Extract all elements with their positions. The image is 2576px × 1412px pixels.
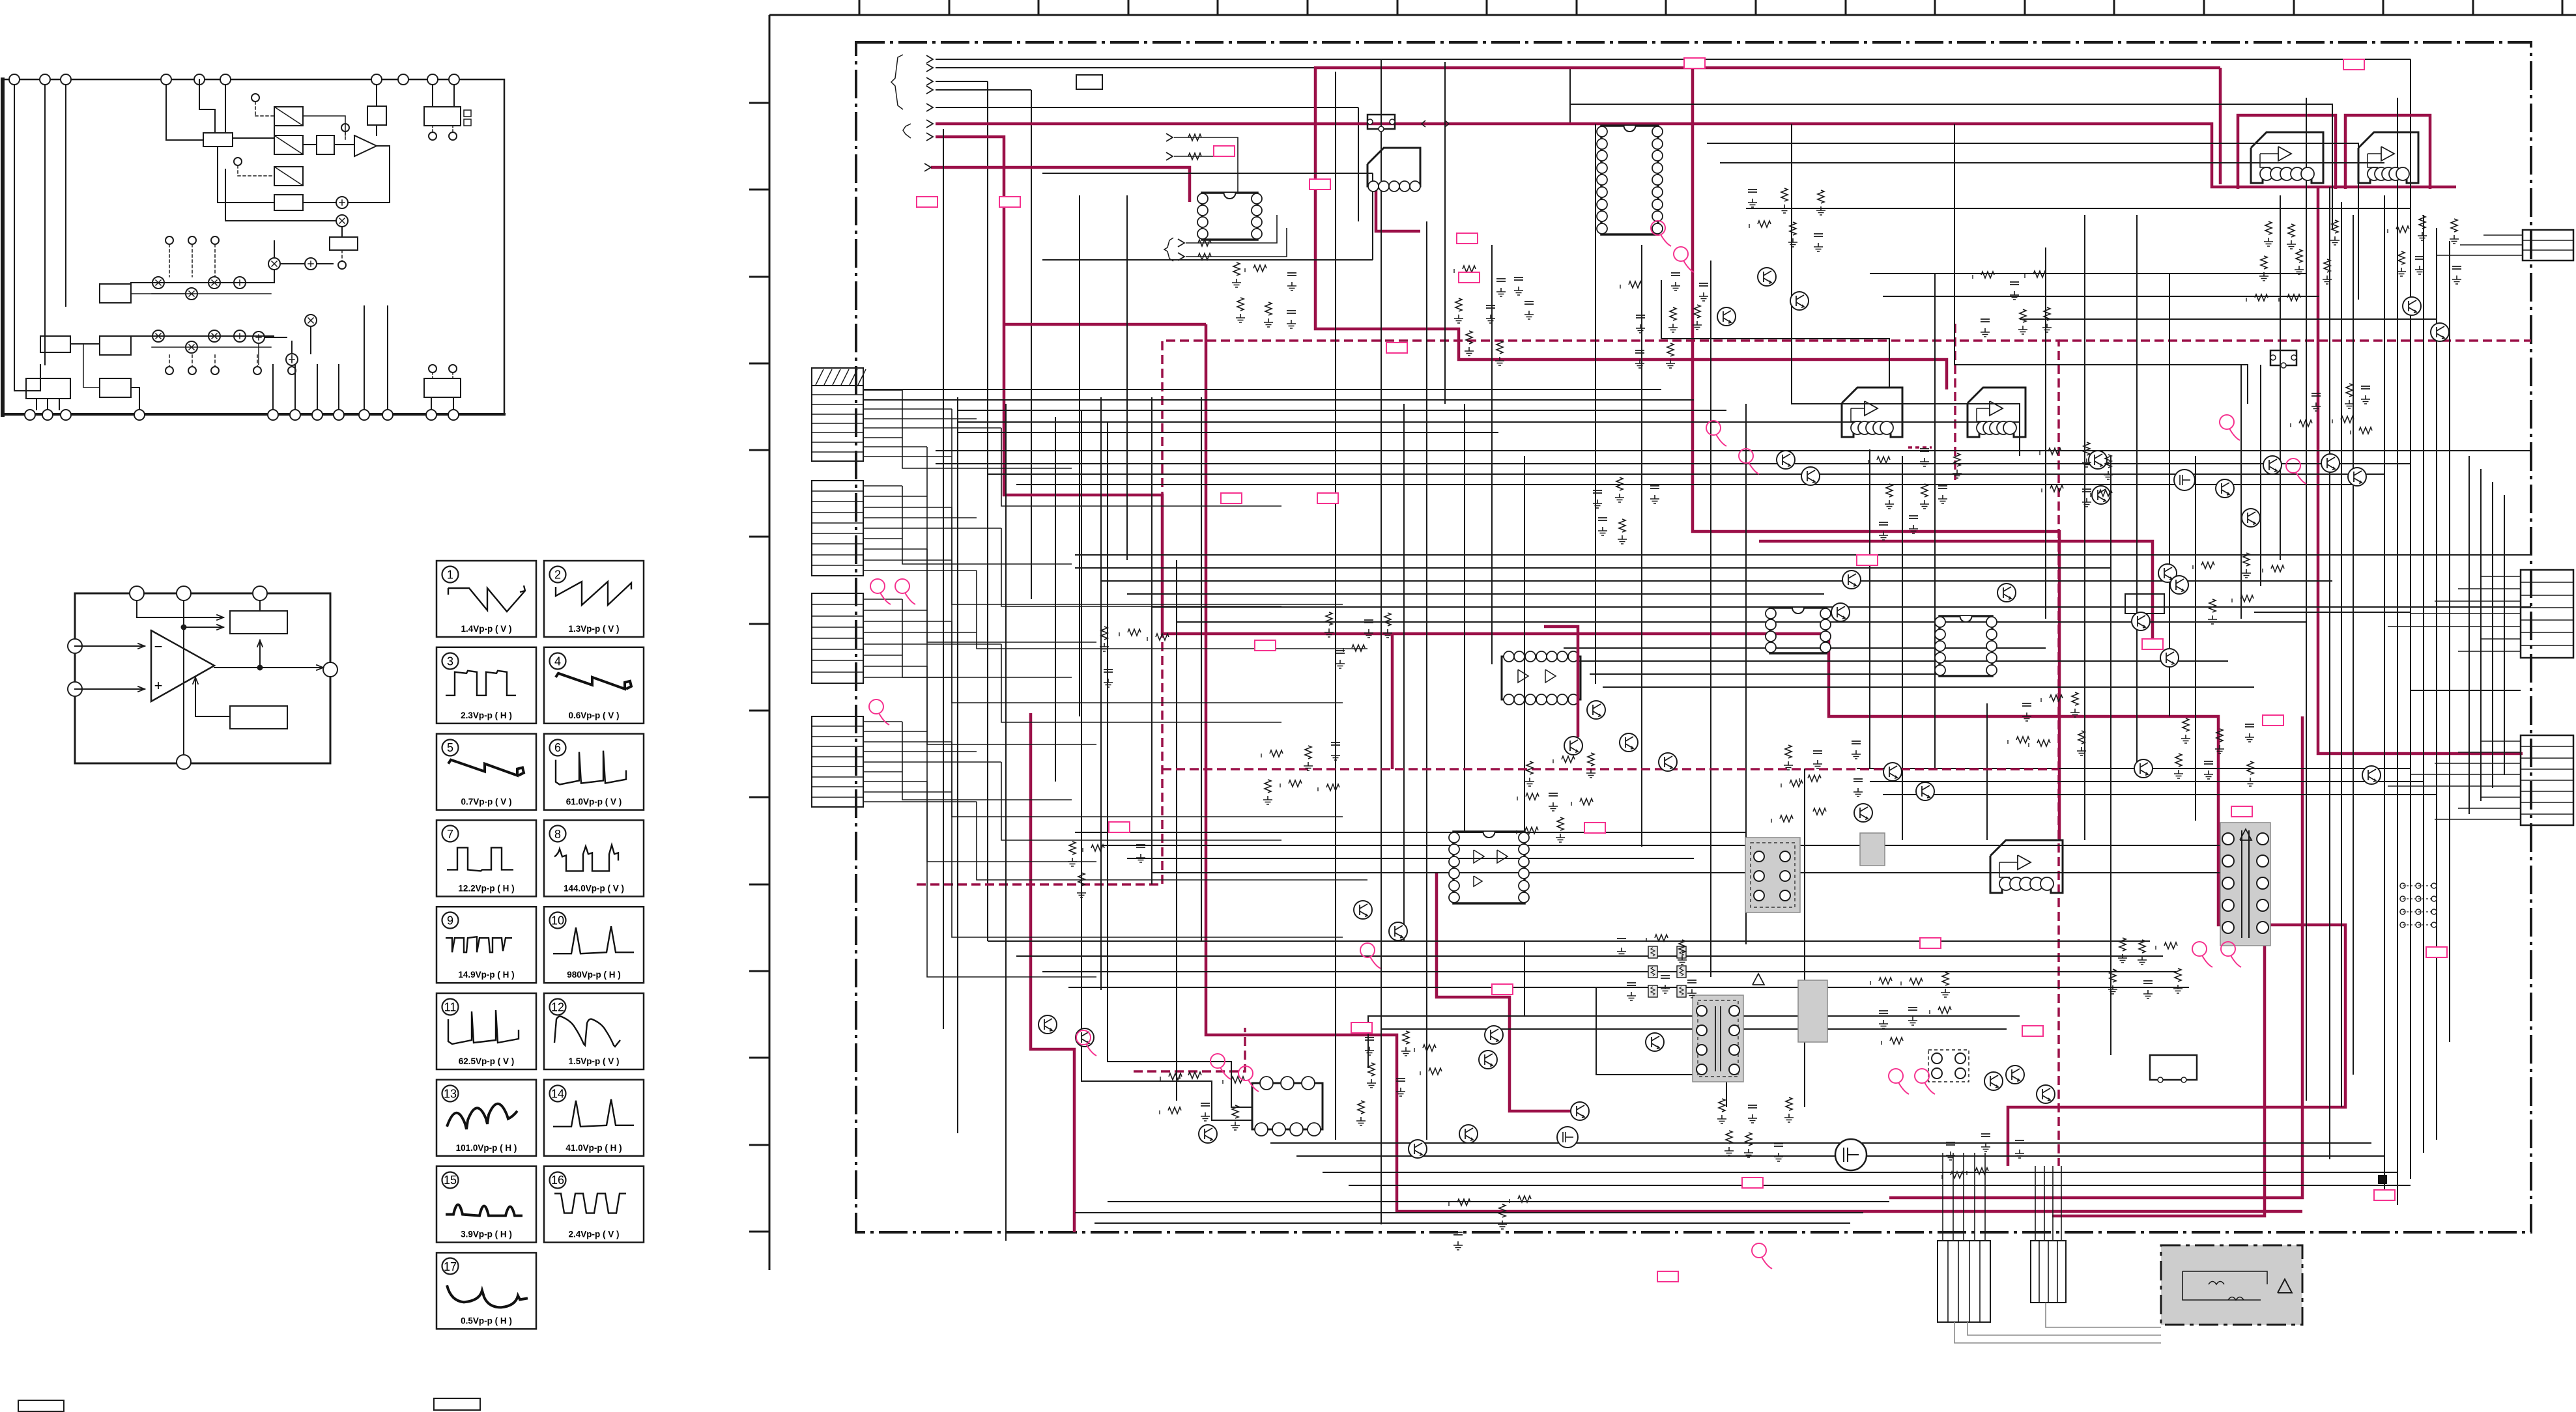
degauss / deflection yoke block (gray) [2161, 1245, 2302, 1325]
svg-text:3.9Vp-p ( H ): 3.9Vp-p ( H ) [461, 1230, 512, 1239]
input wire y=165 [926, 104, 933, 111]
IC U13 (bottom, pins top and bottom) [1252, 1083, 1323, 1129]
svg-text:1: 1 [447, 569, 453, 582]
waveform box 2 [544, 561, 644, 637]
magenta dashed drop near amp U7 [1954, 324, 1956, 480]
pink test points [870, 579, 885, 593]
limiter block 1 [274, 107, 303, 126]
column drops to bottom pins [272, 365, 274, 410]
pink reference labels [1214, 146, 1235, 156]
svg-text:12: 12 [551, 1001, 564, 1014]
svg-text:62.5Vp-p ( V ): 62.5Vp-p ( V ) [459, 1056, 515, 1066]
MOSFET Q3 (small, H-drive) [2174, 470, 2195, 490]
svg-text:14.9Vp-p ( H ): 14.9Vp-p ( H ) [458, 970, 514, 980]
bottom pin [177, 755, 191, 769]
corner page mark [2378, 1175, 2387, 1184]
waveform box 15 [436, 1166, 536, 1243]
magenta partial box right of U9 [1544, 627, 1578, 737]
svg-text:144.0Vp-p ( V ): 144.0Vp-p ( V ) [564, 883, 624, 893]
mid horizontal bus band A [864, 389, 1661, 390]
connector right-3 [2521, 735, 2573, 825]
svg-text:16: 16 [551, 1174, 564, 1187]
svg-text:2: 2 [554, 569, 561, 582]
ref box under mixer [330, 237, 358, 250]
boxed resistor grid (flyback snubbers) [1648, 946, 1657, 958]
power amp U8 (vertical out) [1990, 840, 2063, 893]
connector right-1 [2523, 230, 2573, 261]
left vertical bus bundle [943, 129, 944, 1029]
input wire y=104 [926, 64, 933, 72]
svg-text:5: 5 [447, 741, 453, 754]
band F deep bottom [1270, 1142, 2371, 1144]
svg-text:14: 14 [551, 1087, 564, 1100]
IC U10 [1453, 832, 1524, 903]
connector CN left-2 [812, 481, 863, 576]
right vertical bus bundle [2306, 98, 2307, 1101]
amp triangles inside U10 [1474, 850, 1484, 863]
gray transformer block T2 [1693, 995, 1743, 1082]
waveform box 1 [436, 561, 536, 637]
power amp U6 [1842, 388, 1902, 437]
svg-text:0.6Vp-p ( V ): 0.6Vp-p ( V ) [568, 711, 619, 720]
band D lower mid [1075, 832, 1746, 833]
RGB decode box row1 [100, 284, 131, 303]
bottom dashed circle row [165, 367, 173, 374]
bottom-left small label boxes [18, 1400, 64, 1411]
gray box G2 [1860, 833, 1885, 866]
sheet frame top rule [769, 14, 2576, 16]
MOSFET Q (big circle) [1835, 1139, 1867, 1170]
svg-text:17: 17 [444, 1260, 457, 1273]
output wire loop [377, 146, 390, 202]
warning triangle [2278, 1279, 2292, 1293]
bias box bottom [230, 706, 287, 729]
waveform box 5 [436, 734, 536, 810]
sheet frame left rule [769, 15, 771, 1270]
wires bottom connectors to degauss block [1954, 1322, 2161, 1343]
right header block [424, 107, 461, 126]
svg-text:13: 13 [444, 1087, 457, 1100]
magenta box around amp D [2238, 115, 2336, 189]
svg-text:10: 10 [551, 914, 564, 927]
left pins [68, 639, 82, 653]
bus break arrows near relay [1422, 120, 1425, 127]
RGB decode box row2 [100, 336, 131, 355]
input braces [891, 55, 903, 109]
svg-text:1.4Vp-p ( V ): 1.4Vp-p ( V ) [461, 624, 511, 634]
verticals under amp U4 [2240, 365, 2242, 619]
svg-text:11: 11 [444, 1001, 457, 1014]
waveform box 4 [544, 647, 644, 724]
power amp U7 [1968, 388, 2025, 437]
U1 brace inputs [1164, 238, 1173, 261]
magenta net ME3 (vertical drive) [1437, 873, 1577, 1111]
waveform box 17 [436, 1252, 536, 1329]
opto coupler (dashed box) [1928, 1050, 1969, 1082]
wires [75, 645, 145, 647]
magenta dashed into U13 [1134, 1028, 1245, 1071]
svg-text:7: 7 [447, 828, 453, 841]
magenta net ME1 [1206, 324, 2302, 1211]
IC U11 [1770, 608, 1826, 653]
IC U9 (pins top and bottom) [1502, 657, 1581, 699]
waveform box 10 [544, 907, 644, 983]
relay box right (X-ray protect) [2270, 350, 2297, 365]
magenta stub from U2 pins [1376, 186, 1420, 231]
svg-text:2.4Vp-p ( V ): 2.4Vp-p ( V ) [568, 1230, 619, 1239]
left bus verticals [14, 85, 15, 391]
magenta drop at 2137 [1391, 634, 1394, 769]
magenta net MA (main video bus) [926, 120, 933, 128]
magenta net MB [926, 133, 933, 141]
waveform box 16 [544, 1166, 644, 1243]
IC block diagram (top-left) [2, 74, 504, 420]
waveform box 9 [436, 907, 536, 983]
op-amp diagram outer box [75, 593, 330, 763]
IC U1 (8-pin) [1202, 193, 1257, 240]
transistors [1758, 268, 1776, 286]
discrete component texture (resistors, caps, grounds) [1233, 262, 1240, 275]
gray box G3 (small, near bottom transistor) [1798, 980, 1827, 1042]
magenta net MF bottom collectors [1889, 716, 2302, 1198]
block diagram top pin circles [9, 74, 20, 85]
gain box [317, 135, 334, 154]
op-amp triangle U1 [151, 630, 214, 701]
bottom mid box [100, 378, 131, 397]
svg-text:−: − [154, 638, 163, 655]
svg-text:9: 9 [447, 914, 453, 927]
magenta dashed mid horizontal [1162, 768, 2059, 770]
waveform box 12 [544, 993, 644, 1069]
svg-text:4: 4 [554, 655, 561, 668]
op-amp block diagram [68, 586, 337, 769]
bottom-left box [26, 378, 70, 399]
connector CN left-3 [812, 593, 863, 683]
svg-text:6: 6 [554, 741, 561, 754]
waveform box 13 [436, 1080, 536, 1156]
input wire y=91 [926, 55, 933, 63]
center horizontal band C [1075, 554, 2531, 556]
svg-text:15: 15 [444, 1174, 457, 1187]
bottom-right header block [424, 378, 461, 397]
gray box G1 (regulator) [1745, 838, 1800, 912]
waveform box 6 [544, 734, 644, 810]
block diagram bottom pin circles [25, 410, 35, 420]
magenta net MC top [1315, 68, 2220, 389]
limiter block 2 [274, 135, 303, 154]
magenta feed into ME1 [1004, 323, 1206, 326]
waveform box 11 [436, 993, 536, 1069]
magenta net ME2 [1031, 713, 1074, 1232]
svg-text:+: + [154, 677, 163, 694]
top bus verticals [2410, 59, 2411, 163]
magenta net MD2 [1759, 541, 2153, 645]
bias box top [230, 611, 287, 634]
long horizontal band B [936, 450, 2531, 451]
matrix wires row1 [131, 282, 274, 283]
IC U2 (hex block) [1367, 148, 1420, 186]
magenta net MH right feed [2318, 187, 2523, 754]
center vertical bundle [1335, 72, 1336, 1140]
svg-text:61.0Vp-p ( V ): 61.0Vp-p ( V ) [566, 797, 622, 807]
right pin [323, 662, 337, 677]
left input box [83, 283, 84, 285]
waveform box 14 [544, 1080, 644, 1156]
svg-text:1.3Vp-p ( V ): 1.3Vp-p ( V ) [568, 624, 619, 634]
svg-text:12.2Vp-p ( H ): 12.2Vp-p ( H ) [458, 883, 514, 893]
matrix mixers row1 [152, 277, 164, 289]
matrix mixers row2 [152, 330, 164, 342]
dashed control circles [251, 94, 259, 102]
svg-text:8: 8 [554, 828, 561, 841]
svg-text:101.0Vp-p ( H ): 101.0Vp-p ( H ) [456, 1143, 517, 1153]
magenta box around amp E [2345, 115, 2430, 189]
amp triangle [354, 135, 377, 156]
top right small box [367, 106, 386, 125]
limiter block 3 [274, 167, 303, 186]
svg-text:1.5Vp-p ( V ): 1.5Vp-p ( V ) [568, 1056, 619, 1066]
magenta mid horizontal to IC_A [931, 167, 1190, 202]
band E bottom [988, 940, 2150, 942]
input wire y=125 [926, 78, 933, 85]
magenta dashed branch [2059, 339, 2531, 342]
svg-text:980Vp-p ( H ): 980Vp-p ( H ) [567, 970, 621, 980]
connector CN left-4 [812, 716, 863, 807]
U1 loop boundary wires [1042, 173, 1373, 174]
top-right staircase bundle [1570, 104, 2332, 230]
adder/mixer column [274, 195, 303, 210]
small relay box top-center [1367, 115, 1395, 129]
power amp U4 [2251, 132, 2323, 183]
magenta dashed net MG [917, 341, 2059, 1166]
frame tick marks top [859, 0, 861, 15]
small relay box right-low [2150, 1055, 2197, 1080]
svg-text:0.7Vp-p ( V ): 0.7Vp-p ( V ) [461, 797, 511, 807]
svg-text:41.0Vp-p ( H ): 41.0Vp-p ( H ) [565, 1143, 622, 1153]
svg-text:2.3Vp-p ( H ): 2.3Vp-p ( H ) [461, 711, 512, 720]
staircase routes right half [1792, 124, 2020, 456]
bottom connector CN-B2 [2031, 1241, 2066, 1303]
frame tick marks left [749, 102, 769, 104]
block diagram outer box [2, 79, 504, 415]
warning triangle near T2 [1753, 974, 1764, 985]
IC U3 (18-pin) [1601, 126, 1658, 234]
connector right-2 [2521, 570, 2573, 658]
MOSFET Q2 (small) [1557, 1127, 1578, 1148]
input wire y=138 [926, 86, 933, 94]
svg-text:0.5Vp-p ( H ): 0.5Vp-p ( H ) [461, 1316, 512, 1325]
gray transformer block T1 [2220, 823, 2270, 946]
warning triangle in T1 [2240, 829, 2252, 840]
waveform box 7 [436, 820, 536, 896]
matrix row circles dashed top [165, 236, 173, 244]
staircase route to U13 [1108, 422, 1252, 1107]
IC U12 [1939, 616, 1992, 676]
top pins [130, 586, 144, 600]
small box top (filter) [1076, 75, 1102, 89]
wires from top pins [166, 85, 203, 140]
option pad grid [2400, 883, 2405, 888]
row2 long drops [258, 343, 259, 365]
chain border [856, 42, 2531, 1232]
waveform box 3 [436, 647, 536, 724]
amp triangles inside U9 [1518, 670, 1528, 683]
box A [203, 133, 233, 147]
waveform box 8 [544, 820, 644, 896]
magenta net MD (tall center drop) [1693, 68, 2059, 840]
small box mid-right (delay line) [2125, 594, 2164, 614]
svg-text:3: 3 [447, 655, 453, 668]
bottom connector CN-B1 [1938, 1241, 1990, 1322]
U1 aux input arrows [1166, 134, 1173, 141]
power amp U5 [2358, 132, 2418, 183]
connector CN left-1 (hatched) [812, 368, 863, 461]
right-half vertical mesh [1869, 449, 1870, 769]
